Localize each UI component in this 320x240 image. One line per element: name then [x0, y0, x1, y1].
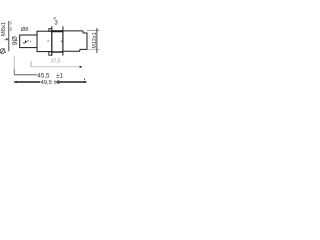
svg-text:37,5: 37,5 [51, 59, 61, 65]
svg-text:49,5 ±1: 49,5 ±1 [41, 80, 60, 86]
right extension line top [87, 29, 99, 31]
dimension line 3 right part [56, 81, 86, 83]
small arrow marker inside tip [25, 40, 27, 43]
tip section rectangle [20, 35, 37, 48]
centerline dashes [27, 40, 29, 42]
right extension line bottom [87, 48, 99, 50]
left arrow blob [6, 38, 9, 41]
dimension line 2 [14, 74, 37, 76]
bottom extension line mid [30, 61, 32, 67]
hex nut top flat line [52, 30, 63, 32]
washer top [49, 29, 52, 32]
svg-text:M12x1: M12x1 [92, 32, 98, 48]
diameter symbol bottom-left [0, 49, 5, 54]
centerline dash at nut [61, 40, 63, 42]
tick above right arrow [84, 79, 85, 80]
hex nut right corner line [62, 26, 64, 55]
left dashed marks [10, 22, 12, 25]
barrel section rectangle [37, 31, 52, 51]
hex nut bottom flat line [52, 51, 63, 53]
washer bottom [49, 52, 52, 55]
svg-text:45,5: 45,5 [37, 73, 50, 80]
connector body outline [63, 31, 87, 51]
svg-text:M8x1: M8x1 [1, 22, 7, 36]
left tick [4, 39, 9, 41]
right diameter dimension line [96, 28, 98, 53]
bottom extension line far-left [13, 56, 15, 69]
arrow right dim1 [80, 66, 83, 69]
hex nut left corner line [51, 26, 53, 55]
dimension line 1 [31, 66, 80, 68]
svg-text:Ø6: Ø6 [10, 36, 17, 45]
svg-text:Ø8: Ø8 [21, 27, 29, 33]
svg-text:±1: ±1 [56, 73, 63, 79]
dimension line 3 left part [14, 81, 40, 83]
arrow left dim3 [14, 81, 17, 83]
arrow right dim3 [84, 81, 87, 83]
left dimension line [8, 21, 10, 51]
